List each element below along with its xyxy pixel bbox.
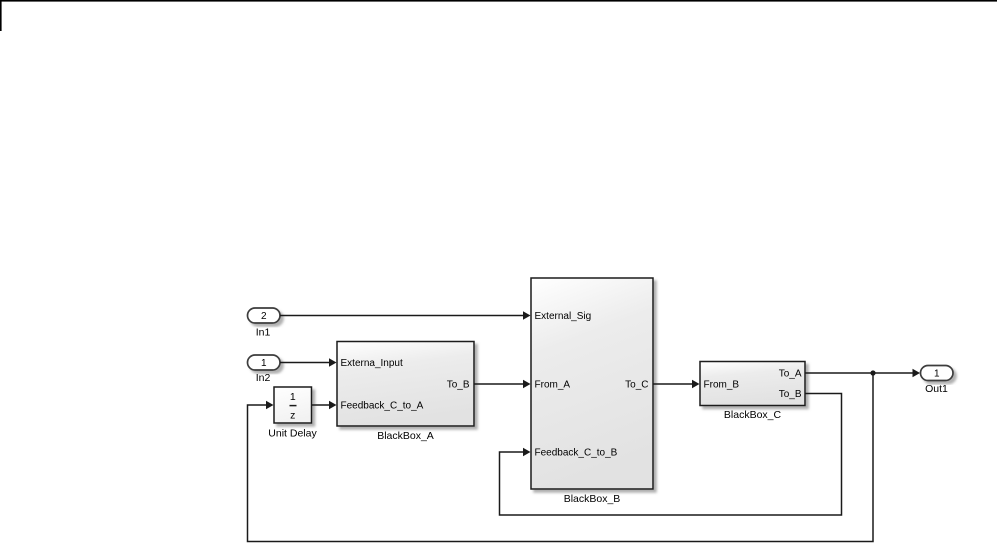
svg-text:External_Sig: External_Sig [535, 311, 592, 322]
svg-text:2: 2 [261, 311, 267, 322]
svg-text:From_A: From_A [535, 380, 571, 391]
window frame top edge [0, 0, 997, 2]
wire Unit Delay to BlackBox_A Feedback_C_to_A [312, 401, 337, 410]
unit delay block Unit Delay [268, 387, 317, 440]
svg-text:1: 1 [934, 369, 940, 380]
svg-text:In1: In1 [256, 327, 271, 339]
wire feedback To_A to Unit Delay [248, 373, 874, 542]
outport Out1 [921, 366, 954, 396]
junction on To_A wire [870, 370, 875, 375]
svg-text:To_B: To_B [447, 380, 470, 391]
subsystem BlackBox_B [531, 278, 653, 505]
wire BlackBox_B To_C to BlackBox_C From_B [653, 380, 700, 389]
svg-text:Externa_Input: Externa_Input [341, 358, 403, 369]
inport In2 [248, 355, 281, 384]
wire feedback BlackBox_C To_B to BlackBox_B Feedback_C_to_B [500, 394, 842, 516]
svg-text:z: z [290, 410, 295, 422]
subsystem BlackBox_A [337, 342, 474, 443]
inport In1 [248, 308, 281, 339]
wire BlackBox_C To_A to Out1 [805, 369, 920, 378]
wire BlackBox_A To_B to BlackBox_B From_A [474, 380, 531, 389]
svg-text:Feedback_C_to_B: Feedback_C_to_B [535, 448, 618, 459]
svg-text:Out1: Out1 [925, 383, 948, 395]
svg-text:To_C: To_C [625, 380, 648, 391]
svg-text:1: 1 [261, 358, 267, 369]
svg-text:In2: In2 [256, 372, 271, 384]
subsystem BlackBox_C [700, 362, 805, 422]
svg-text:BlackBox_B: BlackBox_B [564, 493, 621, 505]
svg-text:To_B: To_B [779, 389, 802, 400]
svg-text:Feedback_C_to_A: Feedback_C_to_A [341, 401, 424, 412]
svg-text:To_A: To_A [779, 369, 802, 380]
window frame left edge [0, 0, 2, 31]
svg-text:Unit Delay: Unit Delay [268, 428, 317, 440]
svg-text:1: 1 [290, 391, 296, 403]
svg-text:BlackBox_C: BlackBox_C [724, 409, 782, 421]
wire In1 to BlackBox_B External_Sig [280, 311, 531, 320]
svg-text:From_B: From_B [704, 380, 740, 391]
wire In2 to BlackBox_A Externa_Input [280, 358, 337, 367]
svg-text:BlackBox_A: BlackBox_A [377, 430, 434, 442]
